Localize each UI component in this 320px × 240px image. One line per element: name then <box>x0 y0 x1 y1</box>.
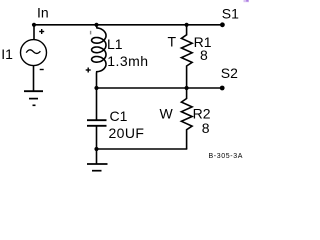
svg-text:1.3mh: 1.3mh <box>107 53 148 69</box>
svg-text:W: W <box>160 105 174 121</box>
svg-text:S1: S1 <box>222 6 239 22</box>
svg-text:T: T <box>168 34 177 50</box>
svg-text:B-305-3A: B-305-3A <box>209 153 244 160</box>
svg-text:L1: L1 <box>107 36 123 52</box>
svg-text:8: 8 <box>200 47 208 63</box>
svg-text:In: In <box>37 5 49 21</box>
svg-text:I1: I1 <box>1 46 13 62</box>
svg-text:20UF: 20UF <box>109 125 145 141</box>
svg-text:S2: S2 <box>221 65 238 81</box>
svg-text:R2: R2 <box>193 105 211 121</box>
svg-text:C1: C1 <box>110 108 128 124</box>
svg-text:8: 8 <box>202 120 210 136</box>
